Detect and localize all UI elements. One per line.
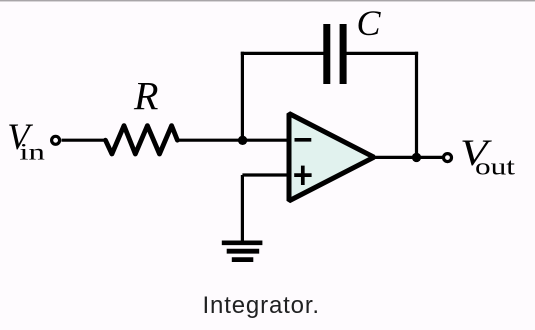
wire non-inverting input bbox=[242, 173, 291, 176]
wire resistor to op-amp inverting input bbox=[177, 139, 291, 142]
op-amp U1 bbox=[289, 114, 374, 201]
wire op-amp output bbox=[373, 156, 443, 159]
wire feedback left vertical bbox=[241, 52, 244, 140]
op-amp plus pin bbox=[294, 166, 311, 185]
wire Vin to resistor bbox=[62, 139, 107, 142]
node Vin terminal bbox=[52, 136, 60, 144]
ground bbox=[222, 243, 263, 260]
op-amp minus pin bbox=[295, 138, 312, 142]
svg-text:Integrator.: Integrator. bbox=[203, 292, 320, 319]
top border strip bbox=[0, 0, 535, 1]
svg-text:out: out bbox=[475, 155, 515, 181]
label Vout bbox=[460, 132, 515, 181]
node junction at output bbox=[412, 153, 421, 162]
svg-text:in: in bbox=[19, 140, 45, 165]
node Vout terminal bbox=[444, 154, 452, 162]
wire feedback top left bbox=[241, 52, 324, 55]
capacitor C right plate bbox=[340, 24, 347, 84]
wire feedback right vertical bbox=[415, 52, 418, 158]
wire feedback top right bbox=[346, 52, 418, 55]
resistor R bbox=[106, 126, 178, 154]
capacitor C left plate bbox=[323, 24, 330, 84]
svg-text:C: C bbox=[357, 3, 382, 43]
wire to ground bbox=[241, 175, 244, 243]
label Vin bbox=[7, 116, 45, 165]
node junction at inverting input bbox=[238, 136, 247, 145]
svg-text:R: R bbox=[133, 74, 158, 119]
